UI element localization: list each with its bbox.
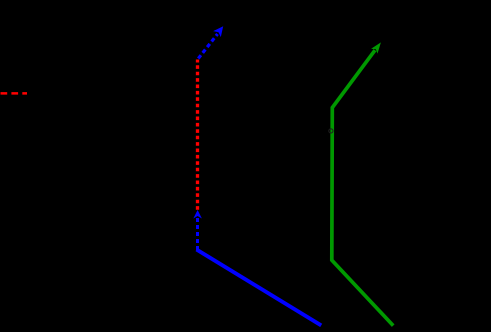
node dark circle marker — [329, 129, 333, 133]
node blue top arrowhead — [213, 26, 223, 37]
node blue middle arrowhead — [193, 210, 202, 219]
wire blue dashed middle shaft — [196, 218, 199, 251]
wire blue dashed top shaft — [198, 34, 217, 59]
wire red dotted vertical line — [196, 60, 199, 210]
wire blue solid line — [197, 250, 322, 326]
wire green polyline — [332, 50, 393, 325]
node green arrowhead — [371, 42, 381, 53]
wire red dashed legend sample — [1, 92, 28, 95]
